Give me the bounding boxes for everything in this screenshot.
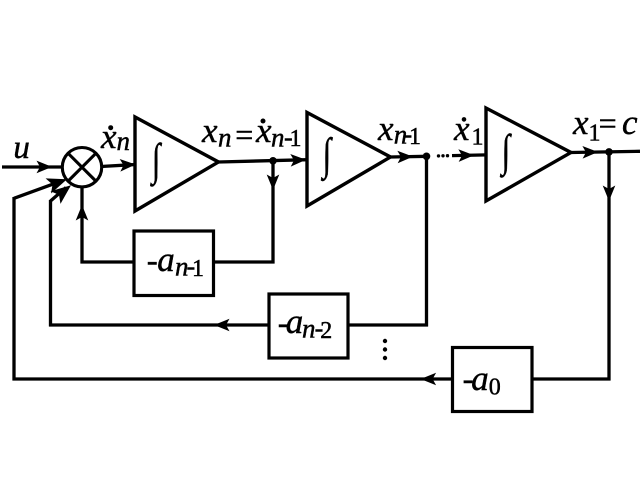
integrator U3 (triangle with integral sign) (486, 108, 571, 201)
svg-text:n: n (302, 314, 316, 344)
gain block A3 (-a_0) (453, 348, 533, 412)
label -a_n-1 (147, 240, 204, 282)
wire branch x_n-1 down to gain block A2 (425, 156, 428, 326)
wire integrator U3 output to right edge (571, 151, 640, 152)
wire branch x_n down to gain block A1 (271, 161, 274, 264)
wire input u to summing junction (2, 165, 63, 168)
svg-text:=: = (599, 105, 617, 141)
svg-text:x: x (453, 109, 470, 148)
svg-text:u: u (13, 130, 30, 166)
svg-text:x: x (100, 117, 117, 156)
svg-text:a: a (471, 359, 489, 398)
wire branch x_1 down to gain block A3 (607, 152, 610, 381)
ellipsis dots on signal path (437, 154, 449, 158)
svg-text:1: 1 (192, 256, 204, 282)
label x_n = xdot_n-1 (201, 111, 302, 153)
summing junction S1 (circle with X) (62, 148, 101, 187)
wire dotted path to integrator U3 (452, 153, 487, 157)
node junction dot on x_n-1 line (423, 153, 431, 161)
wire gain block A3 output to summing junction (bottom feedback) (13, 377, 454, 380)
svg-text:2: 2 (320, 318, 332, 344)
svg-text:n: n (271, 123, 285, 153)
gain block A1 (-a_n-1) (134, 231, 214, 296)
label -a_0 (463, 359, 501, 400)
label -a_n-2 (278, 302, 333, 344)
svg-text:1: 1 (290, 126, 302, 152)
label xdot_n (100, 117, 130, 156)
wire gain block A1 output to summing junction (81, 260, 136, 263)
svg-text:=: = (235, 117, 253, 153)
wire gain block A2 output to summing junction (49, 323, 270, 326)
svg-text:x: x (201, 111, 218, 150)
label xdot_1 (453, 109, 484, 151)
gain block A2 (-a_n-2) (269, 294, 348, 358)
label x_1 = c (output) (572, 103, 638, 147)
wire integrator U1 output to integrator U2 (219, 160, 309, 162)
node junction dot on x_1 line (605, 148, 613, 156)
wire integrator U2 output to node (391, 155, 428, 159)
svg-text:c: c (622, 103, 638, 142)
vertical ellipsis dots (383, 339, 387, 360)
label x_n-1 (377, 109, 421, 150)
svg-text:n: n (117, 126, 131, 156)
svg-text:x: x (572, 103, 589, 142)
svg-text:a: a (286, 302, 304, 341)
svg-text:1: 1 (409, 124, 421, 150)
wire summing junction to integrator U1 (101, 165, 136, 167)
svg-text:0: 0 (489, 374, 501, 400)
integrator U2 (triangle with integral sign) (307, 113, 391, 207)
svg-text:n: n (218, 123, 232, 153)
svg-text:x: x (255, 111, 272, 150)
svg-text:x: x (377, 109, 394, 148)
svg-text:-: - (147, 243, 158, 279)
node junction dot on x_n line (269, 157, 277, 165)
svg-text:1: 1 (472, 125, 484, 151)
svg-text:a: a (157, 240, 175, 279)
integrator U1 (triangle with integral sign) (135, 117, 219, 211)
